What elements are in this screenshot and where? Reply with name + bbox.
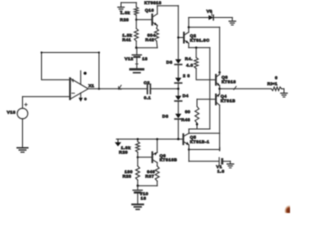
svg-text:R37: R37 [145,174,154,179]
node output junction [218,88,220,90]
wire output to load [220,88,272,90]
wire R41/R42 bottoms joined [135,41,157,49]
feedback wire (unity gain loop) [41,52,101,89]
label V11 value [217,168,224,173]
wire diode chain vertical [177,6,179,139]
svg-text:2 3: 2 3 [183,73,190,78]
voltage source V13 [17,97,28,148]
label Q5 type [190,139,210,144]
label KT818C [190,37,210,42]
svg-text:1.3k: 1.3k [120,10,130,15]
wire long riser to R43 rail [209,48,211,129]
label Q2 [190,33,197,38]
label D2 [183,73,190,78]
ground at load [281,93,287,97]
label Q5 [190,134,197,139]
wire R44 to Q3 base [196,69,215,80]
label R29 value [121,145,131,150]
transistor Q4 [216,94,220,105]
label D8 [162,113,168,118]
svg-text:6: 6 [275,75,278,80]
wire bottom rail y161 [189,160,219,162]
svg-text:KT81.8C: KT81.8C [190,37,210,42]
label Q4 type [221,98,236,103]
signal arrow on output wire [119,85,122,89]
resistor R44 [194,58,198,69]
ground below V12 [130,69,143,72]
resistor R29 [136,142,140,153]
wire rail y149 [189,148,220,151]
svg-text:KT9813: KT9813 [144,0,162,5]
svg-text:KT818: KT818 [222,79,237,84]
svg-text:V12: V12 [125,56,134,61]
label R43 [181,117,190,122]
resistor R43 [195,107,199,124]
ground below V13 [17,148,28,152]
transistor Q2 [184,32,189,43]
resistor R23 [136,166,140,180]
svg-text:D4: D4 [183,93,189,98]
svg-text:c: c [84,96,87,101]
svg-text:1.8: 1.8 [217,168,224,173]
battery V11 1.8V [219,158,230,165]
wire R28 to R41 with base tap [135,15,137,28]
label D3 [166,60,172,65]
label C2 value [144,95,151,100]
diode D2 [175,78,182,83]
svg-text:R41: R41 [122,37,131,42]
tick on output wire [234,86,236,89]
wire R29 to R23 with base tap [137,152,139,166]
wire Q4 emitter riser down [219,105,221,149]
diode D3 [175,59,182,64]
label R29 [119,150,128,155]
resistor R42 [155,29,159,42]
wire V13 to op-amp inverting input [23,96,71,98]
label R42 [145,37,154,42]
label Q3 type [222,79,237,84]
svg-text:60: 60 [185,109,191,114]
label V12 [125,56,134,61]
label D4 [183,93,189,98]
wire Q2 collector to Q3 collector [188,26,220,72]
wire Q16 collector riser [156,6,158,14]
op-amp V- pin [79,93,87,102]
wire into R28 [135,3,137,7]
transistor Q3 [216,74,220,85]
label 6 [275,75,278,80]
resistor R37 [155,166,159,181]
node junction diode chain / C2 [177,88,179,90]
wire base rail of Q5 [116,138,182,140]
wire R23/R37 bottoms joined [137,180,158,187]
node Q3 collector junction [218,71,220,74]
ground at bottom rail end [227,161,234,168]
wire Q5 emitter riser [188,145,190,162]
label R41 value [122,33,132,38]
transistor Q16 [152,14,157,26]
wire Q2 emitter riser [188,43,190,47]
ground below V10 [132,204,143,209]
label X1 [89,83,95,88]
wire Q5 collector riser [188,129,190,133]
label R37 [145,174,154,179]
label R23 value [125,169,134,174]
resistor R29 top stub [137,138,139,142]
wire top-left rail [121,2,136,4]
label Q3 [222,74,229,79]
diode D8 [175,114,182,119]
label R37 value [147,169,156,174]
svg-text:R43: R43 [181,117,190,122]
ground at top-left [118,3,124,11]
svg-text:R42: R42 [145,37,154,42]
wire Q16 collector top rail [157,5,178,7]
wire Q6 emitter to R37 [156,163,158,166]
ground arrow at left end [115,139,122,146]
label V10 value [141,195,147,200]
label R23 [123,174,132,179]
wire lower rail y129 [189,128,210,130]
wire C2 to diode chain [150,88,178,90]
svg-text:KT81B-1: KT81B-1 [190,139,210,144]
svg-text:4.0: 4.0 [186,63,193,68]
svg-text:0.1: 0.1 [144,95,151,100]
wire top supply rail [189,17,233,19]
battery V12 18V [132,48,141,69]
wire Q3 emitter to output node [219,86,221,89]
wire Q6 collector riser [156,138,158,152]
wire base of Q2 [177,36,183,38]
ground at top rail end [229,18,236,26]
label R43 value [185,109,191,114]
svg-text:R28: R28 [120,17,129,22]
battery V10 18V [133,186,142,204]
resistor Rl [271,87,281,91]
label Rl [267,81,278,86]
svg-text:C2: C2 [144,80,150,85]
wire Q4 collector to output node [219,89,221,94]
label Q6 type [160,157,178,162]
label V9 [207,8,213,13]
svg-text:18: 18 [142,56,148,61]
svg-text:Q16: Q16 [145,8,154,13]
node junction at feedback tap [98,88,100,90]
wire Q4 base [197,98,215,100]
label Q16 [145,8,154,13]
wire Q2 emitter rail [189,47,210,49]
label R44 value [186,63,193,68]
node emitter junction y149 [188,148,190,150]
label R42 value [147,33,156,38]
wire Q2 collector riser [188,18,190,33]
wire base of Q6 [138,156,152,158]
label V13 [7,110,16,115]
op-amp V+ pin [81,71,87,85]
transistor Q5 [183,133,189,145]
diode V9 on rail [209,12,214,20]
svg-text:Rl≈1: Rl≈1 [267,81,278,86]
wire base of Q16 [136,19,151,21]
svg-text:V9: V9 [207,8,213,13]
label Q4 [221,93,228,98]
label 18 [142,56,148,61]
op-amp X1 [70,78,88,99]
svg-text:D3: D3 [166,60,172,65]
node junction chain-base [177,138,179,140]
svg-text:V13: V13 [7,110,16,115]
svg-text:KT813B: KT813B [160,157,178,162]
label C2 [144,80,150,85]
label V11 [216,164,222,169]
wire stub to R44 [195,47,197,58]
svg-text:X1: X1 [89,83,95,88]
svg-text:D8: D8 [162,113,168,118]
brown corner blob [285,205,295,216]
resistor R41 [134,29,138,42]
wire R43 bottom [196,123,198,129]
label R41 [122,37,131,42]
diode D4 [175,96,182,101]
wire Q16 emitter to R42 [156,25,159,28]
label Q6 [160,153,167,158]
wire op-amp output [88,88,147,90]
svg-text:18: 18 [141,195,147,200]
svg-text:R4.: R4. [185,56,193,61]
svg-text:R29: R29 [119,150,128,155]
label R44 [185,56,193,61]
label KT9813 [144,0,162,5]
wire Q5 collector rail [189,132,220,134]
label R28 value 1.3k [120,10,130,15]
wire Q4 base corner to R43 [196,99,198,106]
wire Rl to ground [282,89,284,93]
capacitor C2 [147,84,150,93]
resistor R28 [134,7,138,15]
svg-text:R23: R23 [123,174,132,179]
svg-text:KT81B: KT81B [221,98,236,103]
label V10 [140,191,149,196]
label R28 [120,17,129,22]
transistor Q6 [152,152,157,162]
